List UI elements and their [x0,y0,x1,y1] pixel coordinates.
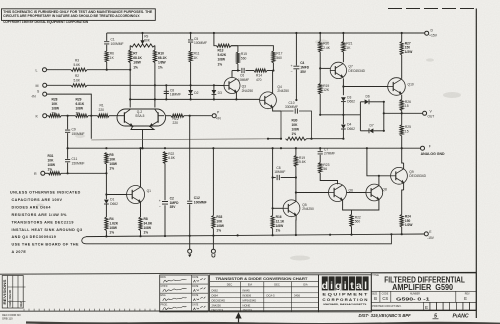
railB junction [319,147,321,149]
node rail2/D3col [213,98,215,100]
resistor R27 [400,42,403,56]
wire Q4 emitter to loop [273,107,281,111]
svg-text:R: R [34,172,37,176]
wire Q1 base [106,194,126,196]
wire railB to R18 [295,148,297,155]
node Q10 base [342,85,344,87]
capacitor C1 [104,42,109,44]
wire Q6 emitter [343,200,352,210]
wire M to R2 [47,84,71,86]
svg-text:DIST· 319,VBV,NBC’S BPF: DIST· 319,VBV,NBC’S BPF [359,313,412,318]
wire Q9 collector [403,163,405,169]
wire to Q10 base [343,86,387,88]
svg-text:i: i [344,280,347,292]
node box mid [383,112,385,114]
node R16 col top [272,176,274,178]
svg-text:150MMF: 150MMF [72,161,85,165]
svg-text:560: 560 [276,56,282,60]
svg-text:10MMF: 10MMF [238,78,249,82]
wire node to Q4 [272,71,274,94]
svg-text:CHK | CHG NO: CHK | CHG NO [9,290,12,307]
svg-text:DEC: DEC [227,283,233,287]
svg-text:R21: R21 [346,42,352,46]
svg-text:l: l [364,280,367,292]
svg-text:NUMBER: NUMBER [410,294,420,296]
terminal R [41,171,45,175]
node Q7 base [319,67,321,69]
chart row line [210,307,319,309]
wire C13 right [281,177,296,179]
svg-text:REV: REV [20,301,23,306]
top border dashed [388,8,476,10]
node Q1 base [105,193,107,195]
svg-text:g: g [335,280,341,292]
terminal M [43,83,47,87]
node Q6 base wire [295,191,297,193]
title cell v2 [390,291,392,302]
svg-text:Q6: Q6 [349,189,354,193]
wire R13 to R15 [231,45,238,47]
wire Q9 coll to F rail [402,148,404,163]
svg-text:DRB 110: DRB 110 [2,316,13,320]
wire R3 to node [87,69,130,71]
svg-text:6.8K: 6.8K [168,156,176,160]
svg-text:R11: R11 [194,52,200,56]
sig row line [160,302,209,304]
svg-text:MPS6534D: MPS6534D [243,298,257,302]
svg-text:DEC: DEC [274,283,280,287]
revisions divider v1 [7,276,9,309]
svg-text:DCA-5: DCA-5 [267,294,276,298]
svg-text:t: t [350,280,354,292]
chart row line [210,297,319,299]
capacitor C12 [187,201,192,203]
wire Q5 emitter [295,215,297,235]
svg-text:EIA: EIA [248,283,252,287]
svg-text:27MMF: 27MMF [324,152,335,156]
wire L to R3 [47,69,72,71]
wire R15 to C6 node [237,64,239,71]
node shield/E line [390,233,392,235]
notice box [2,9,156,21]
revisions divider v2 [12,276,14,309]
svg-text:R2: R2 [75,74,79,78]
resistor R15 [236,52,239,64]
right border [475,9,477,319]
wire C7 to R23 [319,155,321,163]
svg-text:560: 560 [241,57,247,61]
svg-text:Q1: Q1 [147,189,152,193]
transistor Q1 [127,186,145,204]
wire Q8 collector [378,176,380,186]
signature box [160,275,209,312]
chart col divider2 [263,282,265,312]
terminal P [212,114,216,118]
wire R28 to R29 [61,115,76,117]
svg-text:−: − [159,205,161,209]
svg-text:+15V: +15V [429,34,438,38]
bus junction [190,32,192,34]
rail B wire [68,147,421,149]
-15V junction [329,234,331,236]
transistor Q10 [388,78,406,96]
T1 mark [188,253,191,257]
svg-text:DATE: DATE [192,276,198,279]
svg-text:IN3606: IN3606 [243,294,252,298]
svg-text:DEC6534D: DEC6534D [409,174,426,178]
svg-text:R22: R22 [355,215,361,219]
resistor R4 [105,217,108,231]
svg-text:R1: R1 [100,104,104,108]
shield rail lower [82,234,392,244]
node C4 bottom [295,99,297,101]
svg-text:+IN: +IN [216,117,222,121]
wire M rail [87,84,214,86]
rail2 wire [130,98,259,100]
terminal F [421,146,425,150]
node R14/R17 [272,69,274,71]
svg-text:TITLE: TITLE [372,274,379,277]
wire to Q5 collector [295,193,297,202]
wire R24 to E line [401,227,403,234]
node VOUT [401,112,403,114]
wire bus to R20 [319,33,321,42]
resistor R10 [153,50,156,63]
svg-text:3456: 3456 [294,294,300,298]
node C13 wire [295,176,297,178]
wire terminal T2 stem [212,236,214,250]
resistor R11 [189,51,192,62]
resistor R32 [163,152,166,164]
signatures handwriting [163,278,206,310]
capacitor C10 [295,108,297,113]
wire R22 top [351,210,353,215]
terminal E [424,232,428,236]
ruler ticks [24,309,155,311]
resistor R8 [139,217,142,231]
terminal T1 [188,249,192,253]
svg-text:D7: D7 [370,123,374,127]
resistor R6 [105,51,108,62]
svg-text:D2: D2 [194,91,198,95]
svg-text:E: E [425,305,428,310]
bus junction [213,32,215,34]
page edge shadow [26,323,500,324]
+15V bus wire [107,32,425,34]
wire D6 out [370,101,384,103]
R9 wiper arrow [141,33,144,43]
wire box to VOUT [384,112,402,114]
wire bus to C1 [106,33,108,41]
svg-text:ENG.: ENG. [161,295,167,297]
diode D3a [212,90,217,94]
bus junction [401,32,403,34]
resistor R30 [286,137,307,140]
wire D6 in [360,101,364,103]
DEC digital logo [322,276,369,291]
svg-text:150MMF: 150MMF [72,132,85,136]
svg-text:COPYRIGHT 1969 BY DIGITAL EQUI: COPYRIGHT 1969 BY DIGITAL EQUIPMENT CORP… [3,20,89,24]
svg-text:Q9: Q9 [409,170,414,174]
svg-text:D664: D664 [212,294,219,298]
railB junction [212,147,214,149]
transistor Q6 [329,184,347,202]
svg-text:Q5: Q5 [302,203,307,207]
svg-text:E: E [464,296,467,301]
wire R10 to Q2 collector [154,63,156,108]
railB junction [272,147,274,149]
wire R15 top [237,46,239,52]
node R19/clamp [319,114,321,116]
svg-text:D3: D3 [218,91,222,95]
svg-text:-15V: -15V [427,236,435,240]
svg-text:100MMF: 100MMF [194,41,207,45]
sig date divider [191,275,193,312]
wire C5 to R11 [190,43,192,51]
wire C2 to bus [164,205,166,235]
svg-text:DEC FORM NO: DEC FORM NO [2,313,20,317]
svg-text:L: L [36,68,38,72]
railB junction [366,147,368,149]
svg-text:PıANC: PıANC [453,314,469,320]
svg-text:PROD.: PROD. [161,304,169,306]
railB junction [164,147,166,149]
capacitor C2 [162,202,168,205]
bus junction [141,32,143,34]
node railA loop left [280,138,282,140]
wire R6 to L node [106,62,108,70]
resistor R18 [294,156,297,167]
svg-text:C O R P O R A T I O N: C O R P O R A T I O N [322,298,367,302]
svg-text:Q8: Q8 [382,188,387,192]
wire bus to C5 [190,33,192,39]
svg-text:−: − [291,70,293,74]
wire bus to R21 [342,33,344,42]
terminal S [43,92,47,96]
svg-text:D662: D662 [347,100,355,104]
svg-text:DEC2219: DEC2219 [212,308,224,312]
resistor R17 [272,51,275,63]
wire bus down to R13 [214,33,217,46]
wire R7 top [129,46,131,51]
-15V junction [237,234,239,236]
svg-text:56: 56 [323,167,327,171]
node R15/C6 [237,69,239,71]
resistor R3 [71,68,87,71]
svg-text:R20: R20 [323,42,329,46]
-15V junction [272,234,274,236]
node clamp mid [342,114,344,116]
svg-text:D662: D662 [110,202,118,206]
node railA/Q4em [267,138,269,140]
node rail2/C8 [165,98,167,100]
dual transistor Q2 [117,109,166,126]
-15V junction [401,233,403,235]
svg-text:18MMF: 18MMF [170,93,181,97]
transistor Q3 [224,78,240,94]
wire R17 top [231,46,273,51]
wire R1 to Q2 [109,115,119,117]
svg-text:NONE: NONE [243,303,251,307]
svg-text:R19: R19 [299,156,305,160]
node M/D2 [190,84,192,86]
wire Q3 emitter to rail2 [235,92,237,99]
wire R19 down [319,94,321,115]
svg-text:15: 15 [405,104,409,108]
resistor R12 [171,114,184,117]
svg-text:R6: R6 [110,52,114,56]
title cell v3 [455,291,457,302]
wire R7 to Q2 collector [129,63,131,108]
svg-text:2N4250: 2N4250 [242,89,254,93]
bus junction [295,32,297,34]
svg-text:TRANSISTOR & DIODE CONVERSION: TRANSISTOR & DIODE CONVERSION CHART [216,277,308,281]
-15V junction [164,235,166,237]
capacitor C9 [65,130,70,132]
svg-text:F: F [429,144,431,148]
title cell v1 [379,291,381,302]
wire railB to R33 [212,148,214,215]
wire R29 to R1 [88,115,98,117]
T2 mark [212,254,215,258]
wire Q3 collector [231,71,233,78]
wire R32 to C2 [164,164,166,201]
wire C1 to R6 [106,45,108,51]
wire C6 to R14 [246,70,255,72]
transistor Q7 [330,62,346,78]
svg-text:AMPLIFIER G590: AMPLIFIER G590 [392,282,453,292]
wire C9 to railB [67,133,69,148]
railB junction [141,147,143,149]
resistor R5 [105,153,108,165]
svg-text:2N4250: 2N4250 [277,89,289,93]
svg-text:DATE: DATE [192,294,198,297]
svg-text:IN645: IN645 [243,289,251,293]
wire Q1 emitter [140,202,142,217]
svg-text:DATE: DATE [192,285,198,288]
node Mrail/D3col [213,84,215,86]
wire D2 column [190,85,192,99]
clamp box right [383,102,385,131]
svg-text:B: B [374,296,377,301]
svg-text:50K: 50K [144,39,151,43]
node box bottom [383,130,385,132]
node railA loop right [310,138,312,140]
wire R31 to D1 col [61,172,106,174]
wire VOUT terminal [402,112,423,114]
resistor R22 [350,215,353,227]
strip bottom rule [0,310,476,313]
diode D7 [369,128,373,133]
resistor R29 [76,114,89,117]
svg-text:DATE: DATE [192,303,198,306]
svg-text:E Q U I P M E N T: E Q U I P M E N T [322,293,368,297]
handwritten arrow [236,314,240,323]
chart row line [210,302,319,304]
wire K to R28 [47,115,49,117]
chart header rule [210,286,319,288]
wire C4 down [295,69,297,100]
resistor R26 [400,100,403,111]
wire R to R31 [45,172,49,174]
C10 loop right [299,111,312,139]
chart row line [210,292,319,294]
wire Q7 emitter down [342,78,344,95]
title divider1 [371,290,476,292]
svg-text:ANALOG GND: ANALOG GND [421,152,446,156]
svg-text:R25: R25 [405,125,411,129]
wire C12 to bus [189,204,191,235]
wire R20 to base node [319,52,321,84]
svg-text:+: + [159,199,161,203]
wire clamp horizontal [320,114,360,116]
svg-text:12K: 12K [323,88,330,92]
potentiometer R9 [130,44,155,47]
resistor R1 [98,114,110,117]
wire R10 top [154,46,156,51]
svg-text:2.4K: 2.4K [323,46,331,50]
node rail2/D2 [190,98,192,100]
svg-text:220: 220 [173,121,179,125]
wire D1 to R4 [105,204,107,217]
resistor R21 [342,42,345,53]
node Rline/D1col [105,172,107,174]
node railA/D4 [342,138,344,140]
transistor Q8 [366,184,383,201]
wire bus to R27 [401,33,403,42]
node box top [383,101,385,103]
-15V junction [139,235,141,237]
wire D3 column [213,85,215,99]
strip top rule [0,272,476,274]
svg-text:CHK'D: CHK'D [161,286,168,288]
resistor R2 [71,84,87,87]
chart title rule [210,281,319,283]
wire C13 left [273,177,276,179]
svg-text:d: d [322,280,328,292]
capacitor C5 [188,40,193,42]
sig row line [160,283,209,285]
handwritten 5 underline [433,318,439,320]
wire R17 to node [272,63,274,71]
wire terminal T1 stem [189,236,191,249]
capacitor C11 [65,160,70,162]
wire R12 to P [184,115,212,117]
transistor Q9 [391,167,408,184]
resistor R25 [400,125,403,136]
railB junction [105,147,107,149]
transistor Q4 [260,92,277,109]
svg-text:R22: R22 [168,152,174,156]
wire Q6 base link [347,192,366,194]
wire R5 to D1 [105,164,107,199]
svg-text:R23: R23 [323,163,329,167]
revisions row line1 [8,286,26,288]
-15V junction [189,235,191,237]
terminal L [43,68,47,72]
wire to R24 [402,190,404,215]
svg-text:560: 560 [355,220,361,224]
svg-text:5.6K: 5.6K [74,79,81,83]
resistor R20 [319,42,322,53]
svg-text:220: 220 [99,108,105,112]
node M/R10 [154,84,156,86]
wire to Q6 base [296,192,329,194]
svg-text:100MMF: 100MMF [111,42,124,46]
railB junction [295,147,297,149]
node tail/railB [141,147,143,149]
resistor R13 [217,44,232,47]
